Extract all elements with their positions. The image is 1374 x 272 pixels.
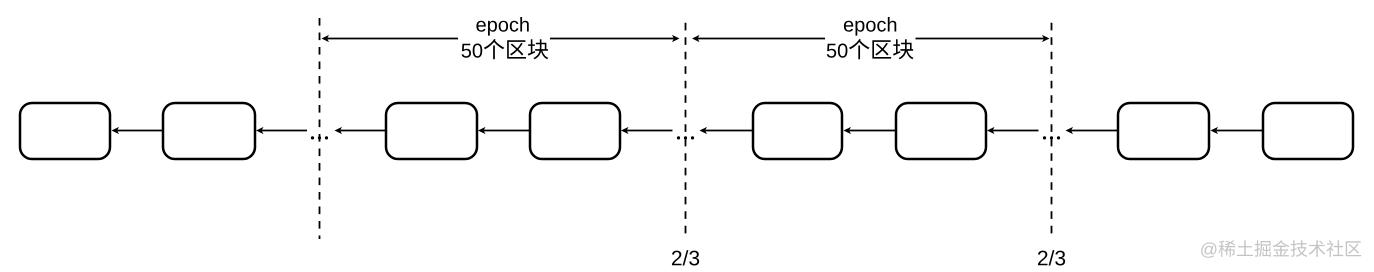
label "50个区块" 1 — [462, 39, 549, 59]
arrow b5->dots2 — [700, 127, 754, 134]
arrow b7->dots3 — [1066, 127, 1119, 134]
block 8 — [1263, 103, 1353, 159]
epoch 2 measure arrow — [692, 35, 1050, 42]
label "2/3" 1 — [672, 250, 699, 265]
block 3 — [386, 103, 477, 159]
block 4 — [530, 103, 620, 159]
epoch boundary dashed line 3 — [1051, 23, 1053, 239]
block 6 — [896, 103, 986, 159]
label "epoch" 2 — [844, 17, 896, 36]
arrow dots3->b6 — [987, 127, 1039, 134]
arrow b3->dots1 — [335, 127, 387, 134]
arrow dots2->b4 — [621, 127, 673, 134]
block 5 — [753, 103, 842, 159]
ellipsis dots 1 — [311, 136, 328, 139]
arrow b6->b5 — [844, 127, 897, 134]
epoch boundary dashed line 2 — [685, 23, 687, 239]
label "2/3" 2 — [1038, 250, 1065, 265]
epoch boundary dashed line 1 — [319, 18, 321, 239]
ellipsis dots 3 — [1043, 136, 1060, 139]
label "epoch" 1 — [476, 17, 528, 36]
watermark "@稀土掘金技术社区" — [1201, 240, 1361, 258]
label "50个区块" 2 — [827, 39, 914, 59]
block 1 — [20, 103, 110, 159]
ellipsis dots 2 — [677, 136, 694, 139]
block 2 — [163, 103, 255, 159]
arrow b8->b7 — [1211, 127, 1264, 134]
arrow b2->b1 — [112, 127, 164, 134]
block 7 — [1118, 103, 1209, 159]
epoch 1 measure arrow — [322, 35, 680, 42]
arrow dots1->b2 — [256, 127, 307, 134]
arrow b4->b3 — [478, 127, 530, 134]
